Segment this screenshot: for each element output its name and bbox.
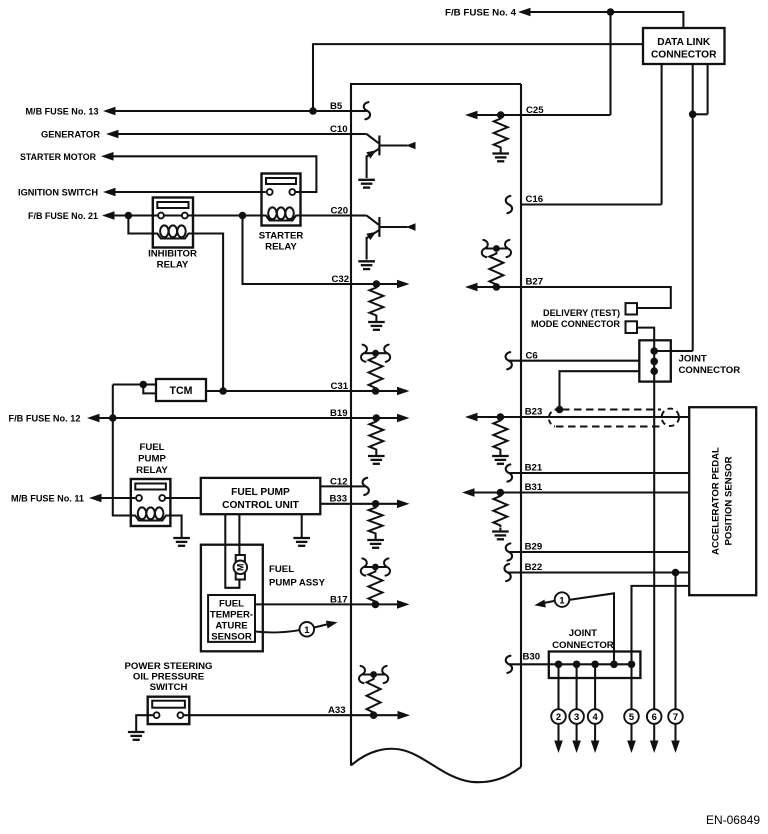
svg-text:4: 4 xyxy=(592,711,598,722)
joint connector lower junction 2 xyxy=(573,661,581,669)
svg-text:CONTROL UNIT: CONTROL UNIT xyxy=(222,500,300,511)
ECU left border xyxy=(350,84,352,766)
wire B5 M/B FUSE No. 13 xyxy=(113,110,367,112)
squiggle B30 xyxy=(506,656,512,673)
svg-text:ATURE: ATURE xyxy=(215,621,248,632)
svg-text:STARTER MOTOR: STARTER MOTOR xyxy=(20,152,96,163)
svg-text:C25: C25 xyxy=(526,105,544,116)
arrow GENERATOR xyxy=(106,130,119,139)
arrow F/B FUSE No. 12 xyxy=(87,414,100,423)
svg-text:FUEL: FUEL xyxy=(269,564,294,575)
resistor at B27 xyxy=(489,252,503,286)
svg-text:DATA LINK: DATA LINK xyxy=(657,37,711,48)
svg-text:OIL PRESSURE: OIL PRESSURE xyxy=(133,672,205,683)
wire DLC pin to C16 xyxy=(521,64,662,205)
arrow below circled 3 xyxy=(572,724,581,753)
junction on fuse No.4 line xyxy=(607,8,615,16)
svg-text:RELAY: RELAY xyxy=(157,260,189,271)
wire B22 down to circled 7 xyxy=(674,573,676,710)
label B5 xyxy=(330,101,343,112)
relay STARTER RELAY xyxy=(262,174,301,226)
arrow below circled 4 xyxy=(591,724,600,753)
wire fuse 12 down to fuel pump relay coil xyxy=(113,418,131,516)
wire GENERATOR C10 xyxy=(116,133,351,135)
wire M/B FUSE No. 11 xyxy=(101,497,135,499)
wire inhibitor coil feed xyxy=(128,216,152,234)
svg-text:B5: B5 xyxy=(330,101,343,112)
svg-text:C20: C20 xyxy=(331,205,349,216)
ground at power steering switch xyxy=(128,732,145,740)
arrow below circled 2 xyxy=(554,724,563,753)
circled 5 xyxy=(624,709,639,724)
resistor at C32 xyxy=(369,286,383,317)
junction fuse 12 xyxy=(109,414,117,422)
svg-text:INHIBITOR: INHIBITOR xyxy=(148,249,197,260)
label JOINT CONNECTOR lower xyxy=(552,628,614,651)
label C16 xyxy=(526,194,544,205)
wire junction down to C25 xyxy=(609,12,611,115)
wire control unit ground xyxy=(301,514,303,537)
shield dashed ring xyxy=(662,409,679,426)
ground at B33 xyxy=(367,535,384,548)
junction C31 internal xyxy=(372,387,380,395)
label C12 xyxy=(330,476,348,487)
svg-text:SENSOR: SENSOR xyxy=(211,632,252,643)
svg-text:GENERATOR: GENERATOR xyxy=(41,130,100,141)
junction starter branch xyxy=(239,212,247,220)
wire B33 xyxy=(320,503,397,505)
arrow B33 internal xyxy=(397,500,410,509)
wire F/B FUSE No. 21 to C20 xyxy=(114,214,351,216)
curly continuation node above A33 xyxy=(359,666,388,683)
arrow F/B FUSE No. 21 xyxy=(102,211,115,220)
junction C25 xyxy=(497,111,505,119)
resistor at B19 xyxy=(369,420,383,451)
arrow C25 xyxy=(465,111,478,120)
svg-text:F/B FUSE No. 12: F/B FUSE No. 12 xyxy=(9,414,81,425)
arrow to F/B FUSE No. 4 xyxy=(518,8,531,17)
svg-text:F/B FUSE No. 21: F/B FUSE No. 21 xyxy=(28,211,99,222)
curly continuation node above B27 xyxy=(482,240,511,257)
svg-text:EN-06849: EN-06849 xyxy=(706,813,760,827)
svg-text:STARTER: STARTER xyxy=(259,231,304,242)
arrow M/B FUSE No. 13 xyxy=(103,107,116,116)
label JOINT CONNECTOR upper xyxy=(679,354,741,376)
label C10 xyxy=(330,124,348,135)
svg-text:JOINT: JOINT xyxy=(569,628,597,639)
resistor at C31 xyxy=(369,356,383,390)
ground at C32 xyxy=(368,317,385,330)
junction DLC pins xyxy=(689,111,697,119)
arrow C31 internal xyxy=(397,387,410,396)
label POWER STEERING OIL PRESSURE SWITCH xyxy=(125,661,213,693)
squiggle B29 xyxy=(506,543,512,560)
label B21 xyxy=(525,463,543,474)
delivery mode connector pin 1 xyxy=(626,303,638,314)
svg-text:PUMP ASSY: PUMP ASSY xyxy=(269,578,326,589)
svg-text:TCM: TCM xyxy=(170,385,193,397)
junction shield drain xyxy=(556,406,564,414)
wire TCM left pins xyxy=(113,385,156,394)
wire control unit to pump motor return xyxy=(225,514,239,588)
label C20 xyxy=(331,205,349,216)
ground at fuel pump relay xyxy=(173,538,190,546)
label IGNITION SWITCH xyxy=(18,188,98,199)
wire B17 xyxy=(255,603,398,605)
svg-text:SWITCH: SWITCH xyxy=(150,682,188,693)
wire switch to ground xyxy=(136,715,153,731)
circled 6 xyxy=(647,709,662,724)
ground at C25 xyxy=(492,149,509,161)
label B29 xyxy=(525,542,543,553)
wire control unit to pump motor xyxy=(238,514,240,554)
label F/B FUSE No. 12 xyxy=(9,414,81,425)
wire B29 xyxy=(509,551,689,553)
svg-text:3: 3 xyxy=(574,711,579,722)
svg-text:FUEL PUMP: FUEL PUMP xyxy=(231,487,290,498)
svg-text:A33: A33 xyxy=(328,705,346,716)
svg-text:2: 2 xyxy=(556,711,561,722)
svg-text:C6: C6 xyxy=(526,350,538,361)
label B22 xyxy=(525,562,543,573)
wire B23 xyxy=(477,416,689,418)
label B31 xyxy=(525,482,543,493)
svg-text:CONNECTOR: CONNECTOR xyxy=(679,365,741,376)
arrow below circled 6 xyxy=(650,724,659,753)
curly continuation node above B17 xyxy=(361,558,390,575)
curly continuation node above C31 xyxy=(361,345,390,362)
svg-text:CONNECTOR: CONNECTOR xyxy=(552,640,614,651)
FUEL PUMP ASSY box xyxy=(201,545,263,652)
joint connector lower junction 5 xyxy=(628,661,636,669)
junction A33 xyxy=(370,711,378,719)
wire C32 internal xyxy=(351,283,398,285)
wire starter branch to C32 xyxy=(243,216,352,285)
wire fuel temp sensor to circled 1 xyxy=(255,630,300,633)
arrow STARTER MOTOR xyxy=(101,152,114,161)
label FUEL PUMP ASSY xyxy=(269,564,326,589)
squiggle C12 xyxy=(363,478,369,495)
svg-text:RELAY: RELAY xyxy=(265,242,297,253)
svg-text:PUMP: PUMP xyxy=(138,454,166,465)
transistor at C10 xyxy=(351,134,416,188)
label M/B FUSE No. 13 xyxy=(26,107,99,118)
relay FUEL PUMP RELAY xyxy=(131,479,171,526)
ground at control unit xyxy=(293,538,310,546)
svg-text:CONNECTOR: CONNECTOR xyxy=(651,50,717,61)
joint connector lower box xyxy=(549,652,641,679)
TCM box xyxy=(156,379,206,401)
svg-text:POSITION SENSOR: POSITION SENSOR xyxy=(724,456,735,545)
wire joint connector to circled 4 xyxy=(594,664,596,709)
svg-text:B23: B23 xyxy=(525,407,543,418)
joint connector upper box xyxy=(639,340,671,381)
delivery mode connector pin 2 xyxy=(626,321,638,333)
arrow B19 internal xyxy=(397,414,410,423)
svg-text:B22: B22 xyxy=(525,562,543,573)
wire through joint connector down to circled 6 xyxy=(653,340,655,709)
squiggle C6 xyxy=(506,352,512,369)
wire joint connector to circled 2 xyxy=(557,664,559,709)
svg-text:TEMPER-: TEMPER- xyxy=(210,610,253,621)
label C25 xyxy=(526,105,544,116)
label F/B FUSE No. 4 xyxy=(445,8,517,19)
label C6 xyxy=(526,350,538,361)
squiggle B21 xyxy=(506,464,512,481)
fuel pump motor xyxy=(234,555,248,580)
svg-text:F/B FUSE No. 4: F/B FUSE No. 4 xyxy=(445,8,517,19)
relay INHIBITOR RELAY xyxy=(153,198,193,248)
junction B19 xyxy=(373,414,381,422)
svg-text:B30: B30 xyxy=(523,652,541,663)
ECU top border xyxy=(350,83,521,85)
junction C31 at TCM branch xyxy=(219,387,227,395)
svg-text:1: 1 xyxy=(559,594,564,605)
arrow B27 xyxy=(465,283,478,292)
wire B22 xyxy=(508,571,690,573)
resistor at B23 xyxy=(493,419,507,451)
svg-text:6: 6 xyxy=(652,711,657,722)
wire DLC pin down to joint connector xyxy=(654,64,693,351)
arrow below circled 5 xyxy=(627,724,636,753)
svg-text:ACCELERATOR PEDAL: ACCELERATOR PEDAL xyxy=(711,447,722,555)
squiggle B22 xyxy=(504,564,510,581)
svg-text:5: 5 xyxy=(629,711,634,722)
wire C6 xyxy=(509,360,639,362)
junction B5 line xyxy=(309,107,317,115)
wire fuel pump relay coil to ground xyxy=(170,516,181,538)
wire A33 xyxy=(183,714,398,716)
junction C32 xyxy=(373,280,381,288)
label C32 xyxy=(332,274,350,285)
wire STARTER MOTOR xyxy=(113,156,316,192)
wire IGNITION SWITCH xyxy=(115,191,266,193)
label B30 xyxy=(523,652,541,663)
arrow B31 xyxy=(462,488,475,497)
wire F/B FUSE No. 12 B19 xyxy=(99,417,351,419)
label B33 xyxy=(330,494,348,505)
circled 1 pointer xyxy=(300,618,339,636)
resistor at C25 xyxy=(494,117,508,149)
arrow B17 internal xyxy=(397,600,410,609)
svg-text:RELAY: RELAY xyxy=(136,465,168,476)
svg-text:B29: B29 xyxy=(525,542,543,553)
svg-text:FUEL: FUEL xyxy=(139,442,164,453)
svg-text:M/B FUSE No. 13: M/B FUSE No. 13 xyxy=(26,107,99,118)
svg-text:B21: B21 xyxy=(525,463,543,474)
wire joint connector to shield drain xyxy=(560,371,640,409)
svg-text:B33: B33 xyxy=(330,494,348,505)
junction B22 xyxy=(672,569,680,577)
wire junction 4 up to circled 1 arrow xyxy=(569,593,614,664)
ground at B19 xyxy=(368,451,385,464)
label INHIBITOR RELAY xyxy=(148,249,197,271)
label EN-06849 xyxy=(706,813,760,827)
arrow B23 xyxy=(465,413,478,422)
label B27 xyxy=(526,277,544,288)
FUEL TEMPERATURE SENSOR box xyxy=(208,595,255,643)
label GENERATOR xyxy=(41,130,100,141)
label B19 xyxy=(330,408,348,419)
wire C31 xyxy=(206,390,398,392)
joint connector pin junction 2 xyxy=(650,358,658,366)
circled 4 xyxy=(588,709,603,724)
label STARTER RELAY xyxy=(259,231,304,253)
svg-text:MODE CONNECTOR: MODE CONNECTOR xyxy=(531,319,620,330)
junction TCM pins xyxy=(140,381,148,389)
wire C25 xyxy=(477,114,611,116)
svg-text:1: 1 xyxy=(304,624,309,635)
joint connector lower junction 3 xyxy=(591,661,599,669)
wire TCM feed down xyxy=(112,385,114,419)
wire B21 xyxy=(509,472,689,474)
resistor at A33 xyxy=(367,678,381,715)
label B17 xyxy=(330,594,348,605)
label A33 xyxy=(328,705,346,716)
svg-text:JOINT: JOINT xyxy=(679,354,707,365)
squiggle B5 xyxy=(364,102,370,119)
resistor at B17 xyxy=(368,570,382,603)
junction inhibitor branch xyxy=(125,212,133,220)
arrow M/B FUSE No. 11 xyxy=(89,494,102,503)
label F/B FUSE No. 21 xyxy=(28,211,99,222)
circled 7 xyxy=(668,709,683,724)
svg-text:M/B FUSE No. 11: M/B FUSE No. 11 xyxy=(11,494,85,505)
circled 1 reference xyxy=(534,592,570,609)
joint connector pin junction 1 xyxy=(650,347,658,355)
label STARTER MOTOR xyxy=(20,152,96,163)
svg-text:POWER STEERING: POWER STEERING xyxy=(125,661,213,672)
wire delivery pin 2 to joint connector xyxy=(637,328,654,341)
label M/B FUSE No. 11 xyxy=(11,494,85,505)
wire DLC left side to B5 xyxy=(313,43,643,111)
junction B27 xyxy=(493,283,501,291)
transistor at C20 xyxy=(351,216,416,270)
junction B31 xyxy=(497,489,505,497)
wire B27 xyxy=(477,287,671,308)
svg-text:B31: B31 xyxy=(525,482,543,493)
svg-text:C12: C12 xyxy=(330,476,348,487)
junction B17 xyxy=(372,601,380,609)
svg-text:C32: C32 xyxy=(332,274,350,285)
resistor at B33 xyxy=(369,506,383,535)
wire fuel pump relay to control unit xyxy=(165,497,201,499)
wire B31 xyxy=(474,491,689,493)
svg-text:IGNITION SWITCH: IGNITION SWITCH xyxy=(18,188,98,199)
ground at B23 xyxy=(492,451,509,464)
joint connector lower junction 4 xyxy=(610,661,618,669)
junction B33 xyxy=(372,500,380,508)
svg-text:7: 7 xyxy=(673,711,678,722)
circled 3 xyxy=(569,709,584,724)
svg-text:FUEL: FUEL xyxy=(219,599,244,610)
svg-text:M: M xyxy=(236,564,246,571)
svg-text:B17: B17 xyxy=(330,594,348,605)
resistor at B31 xyxy=(493,495,507,528)
svg-text:B27: B27 xyxy=(526,277,544,288)
ground at B31 xyxy=(492,528,509,540)
data link connector box xyxy=(643,28,725,64)
junction B23 xyxy=(497,413,505,421)
label C31 xyxy=(331,381,349,392)
wire inhibitor coil to C31 xyxy=(193,234,223,392)
ECU right border xyxy=(520,84,522,767)
label DELIVERY (TEST) MODE CONNECTOR xyxy=(531,308,620,330)
svg-text:C31: C31 xyxy=(331,381,349,392)
joint connector lower junction 1 xyxy=(555,661,563,669)
ECU bottom wavy break xyxy=(351,749,521,782)
wire C12 xyxy=(320,485,365,487)
wire accelerator sensor to joint connector pin 5 xyxy=(632,586,690,664)
svg-text:C16: C16 xyxy=(526,194,544,205)
arrow below circled 7 xyxy=(671,724,680,753)
svg-text:C10: C10 xyxy=(330,124,348,135)
wire B19 internal xyxy=(351,417,398,419)
label ACCELERATOR PEDAL POSITION SENSOR xyxy=(689,407,756,595)
shield dashed boundary xyxy=(549,409,664,426)
wire B30 xyxy=(509,663,635,665)
wire F/B FUSE No. 4 feed line xyxy=(528,11,683,28)
svg-text:B19: B19 xyxy=(330,408,348,419)
label B23 xyxy=(525,407,543,418)
squiggle C16 xyxy=(506,196,512,213)
joint connector pin junction 3 xyxy=(650,367,658,375)
POWER STEERING OIL PRESSURE SWITCH box xyxy=(148,697,190,724)
wire joint connector to circled 3 xyxy=(576,664,578,709)
wire joint connector to circled 5 xyxy=(630,664,632,709)
label FUEL PUMP RELAY xyxy=(136,442,168,476)
wire DLC right pin jog xyxy=(693,64,708,114)
arrow IGNITION SWITCH xyxy=(103,188,116,197)
FUEL PUMP CONTROL UNIT box xyxy=(201,478,320,514)
arrow C32 internal xyxy=(397,280,410,289)
svg-text:DELIVERY (TEST): DELIVERY (TEST) xyxy=(543,308,620,319)
arrow A33 internal xyxy=(398,711,411,720)
circled 2 xyxy=(551,709,566,724)
